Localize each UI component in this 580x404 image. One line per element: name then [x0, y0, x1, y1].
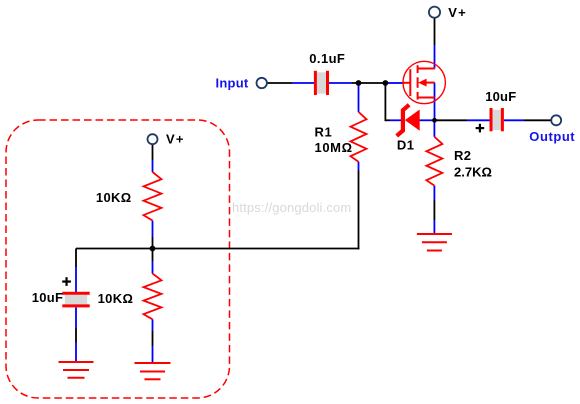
wire bottom horizontal black	[76, 248, 359, 250]
wire input blue to C-in	[292, 82, 314, 84]
wire to left ground blue	[75, 343, 77, 363]
node A junction dot	[356, 80, 362, 86]
wire C-in to node G blue	[329, 82, 352, 84]
ground box left	[59, 362, 94, 378]
capacitor box 10uF bottom plate	[62, 304, 89, 307]
wire below box cap black	[75, 328, 77, 343]
wire to right ground blue	[152, 346, 154, 363]
svg-text:R2: R2	[454, 148, 471, 163]
mosfet Q1 source tap	[418, 97, 435, 99]
wire V+ top black	[434, 18, 436, 45]
zener D1 triangle	[405, 110, 420, 131]
wire node C down black	[152, 249, 154, 262]
node D junction dot	[432, 118, 437, 123]
wire to top 10K blue	[152, 160, 154, 172]
svg-text:10KΩ: 10KΩ	[98, 291, 134, 306]
svg-text:10uF: 10uF	[32, 290, 63, 305]
resistor box top 10K	[144, 172, 162, 221]
mosfet Q1 body arrow	[418, 79, 426, 87]
mosfet Q1 channel segment middle	[417, 77, 419, 88]
wire after C-out blue	[504, 119, 524, 121]
mosfet Q1 channel segment bottom	[417, 92, 419, 100]
wire below box cap blue	[75, 308, 77, 329]
svg-text:10MΩ: 10MΩ	[315, 140, 353, 155]
capacitor C-out 10uF left plate	[490, 108, 493, 131]
svg-text:10uF: 10uF	[485, 89, 516, 104]
wire V+ box terminal black	[152, 144, 154, 160]
wire below top 10K black	[152, 237, 154, 249]
svg-text:2.7KΩ: 2.7KΩ	[454, 165, 492, 180]
capacitor C-in 0.1uF left plate	[314, 71, 317, 95]
resistor box bottom 10K	[144, 274, 162, 320]
svg-text:Input: Input	[216, 75, 249, 90]
label plus output	[476, 124, 485, 133]
capacitor box 10uF top plate	[62, 292, 89, 295]
wire corner to D1 black	[385, 119, 390, 121]
wire input black	[267, 82, 292, 84]
capacitor C-out 10uF right plate	[501, 108, 504, 131]
terminal V+ box	[148, 134, 158, 144]
mosfet Q1 drain tap	[418, 68, 435, 70]
resistor R1 10M	[351, 112, 367, 162]
capacitor box 10uF body	[65, 295, 87, 305]
wire below R2 blue	[433, 186, 435, 200]
zener D1 cathode bar	[397, 105, 409, 136]
mosfet Q1 gate lead	[403, 82, 411, 84]
terminal Input	[257, 78, 267, 88]
svg-text:Output: Output	[529, 129, 575, 144]
node C junction dot	[150, 246, 156, 252]
wire to R2 ground blue	[433, 220, 435, 234]
wire node B to gate blue	[387, 82, 403, 84]
terminal Output	[551, 115, 561, 125]
node B junction dot	[383, 80, 389, 86]
wire source blue	[434, 83, 436, 121]
wire box cap branch blue	[75, 267, 77, 292]
svg-text:10KΩ: 10KΩ	[96, 190, 132, 205]
wire node A down to R1 blue	[358, 83, 360, 112]
wire below top 10K blue	[152, 221, 154, 238]
svg-text:0.1uF: 0.1uF	[309, 51, 345, 66]
wire box cap branch down black	[75, 249, 77, 268]
mosfet Q1 body line	[425, 82, 435, 84]
wire below bottom 10K black	[152, 331, 154, 346]
ground R2	[417, 234, 452, 251]
wire to C-out blue	[467, 119, 490, 121]
wire below bottom 10K blue	[152, 319, 154, 331]
wire D1 anode to node D blue	[420, 119, 435, 121]
wire node D to R2 blue	[433, 120, 435, 137]
wire below R2 black	[433, 200, 435, 220]
mosfet Q1 gate bar	[409, 69, 411, 96]
label plus box	[62, 277, 71, 286]
mosfet Q1 circle	[403, 61, 445, 103]
svg-text:D1: D1	[397, 138, 415, 153]
wire R1 bottom black down	[358, 171, 360, 250]
wire to output terminal black	[524, 119, 551, 121]
wire drain blue	[434, 45, 436, 69]
terminal V+ top	[429, 7, 440, 18]
wire node B down black	[384, 83, 386, 121]
wire R1 bottom blue	[358, 162, 360, 171]
capacitor C-out 10uF body	[493, 110, 502, 130]
dashed enclosure box	[6, 120, 230, 398]
svg-text:V+: V+	[166, 132, 185, 147]
resistor R2 2.7K	[426, 137, 442, 186]
ground box right	[135, 363, 171, 379]
wire node D to C-out black	[435, 119, 468, 121]
capacitor C-in 0.1uF body	[317, 72, 326, 93]
svg-text:V+: V+	[448, 5, 467, 20]
wire to bottom 10K blue	[152, 261, 154, 274]
capacitor C-in 0.1uF right plate	[326, 71, 329, 95]
mosfet Q1 channel segment top	[417, 65, 419, 73]
wire node A to node B black	[352, 82, 387, 84]
wire to D1 cathode blue	[390, 119, 402, 121]
svg-text:https://gongdoli.com: https://gongdoli.com	[232, 200, 351, 215]
svg-text:R1: R1	[315, 125, 333, 140]
